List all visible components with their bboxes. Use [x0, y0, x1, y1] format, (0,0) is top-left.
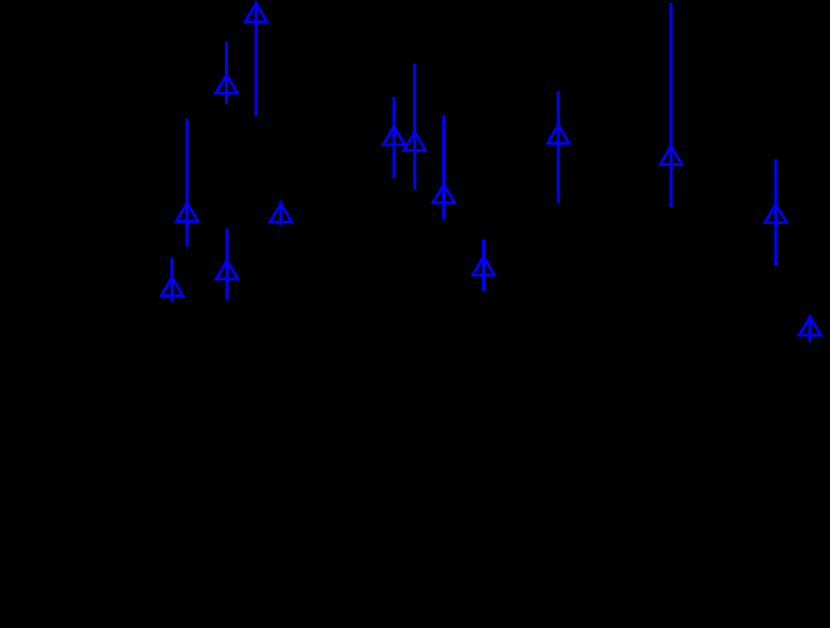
data point A error bar	[255, 1, 258, 116]
data point G triangle marker	[383, 126, 405, 144]
data point N error bar	[808, 315, 811, 342]
data point E error bar	[170, 258, 173, 302]
data point M triangle marker	[765, 204, 787, 222]
data point K triangle marker	[548, 125, 570, 143]
data point C error bar	[185, 119, 188, 247]
data point H error bar	[413, 64, 416, 190]
data point A triangle marker	[245, 3, 267, 21]
data point B error bar	[225, 41, 228, 103]
data point I error bar	[442, 115, 445, 220]
data point L triangle marker	[660, 146, 682, 164]
data point B triangle marker	[216, 75, 238, 93]
data point F error bar	[225, 229, 228, 301]
data point L error bar	[669, 3, 672, 207]
data point N triangle marker	[799, 317, 821, 335]
data point D error bar	[279, 201, 282, 226]
data point M error bar	[774, 159, 777, 266]
data point G error bar	[392, 97, 395, 178]
data point I triangle marker	[433, 185, 455, 203]
data point K error bar	[557, 91, 560, 203]
data point J error bar	[482, 239, 485, 291]
data point E triangle marker	[161, 278, 183, 296]
data point J triangle marker	[473, 257, 495, 275]
data point F triangle marker	[216, 261, 238, 279]
data point H triangle marker	[404, 132, 426, 150]
data point C triangle marker	[176, 203, 198, 221]
data point D triangle marker	[270, 204, 292, 222]
